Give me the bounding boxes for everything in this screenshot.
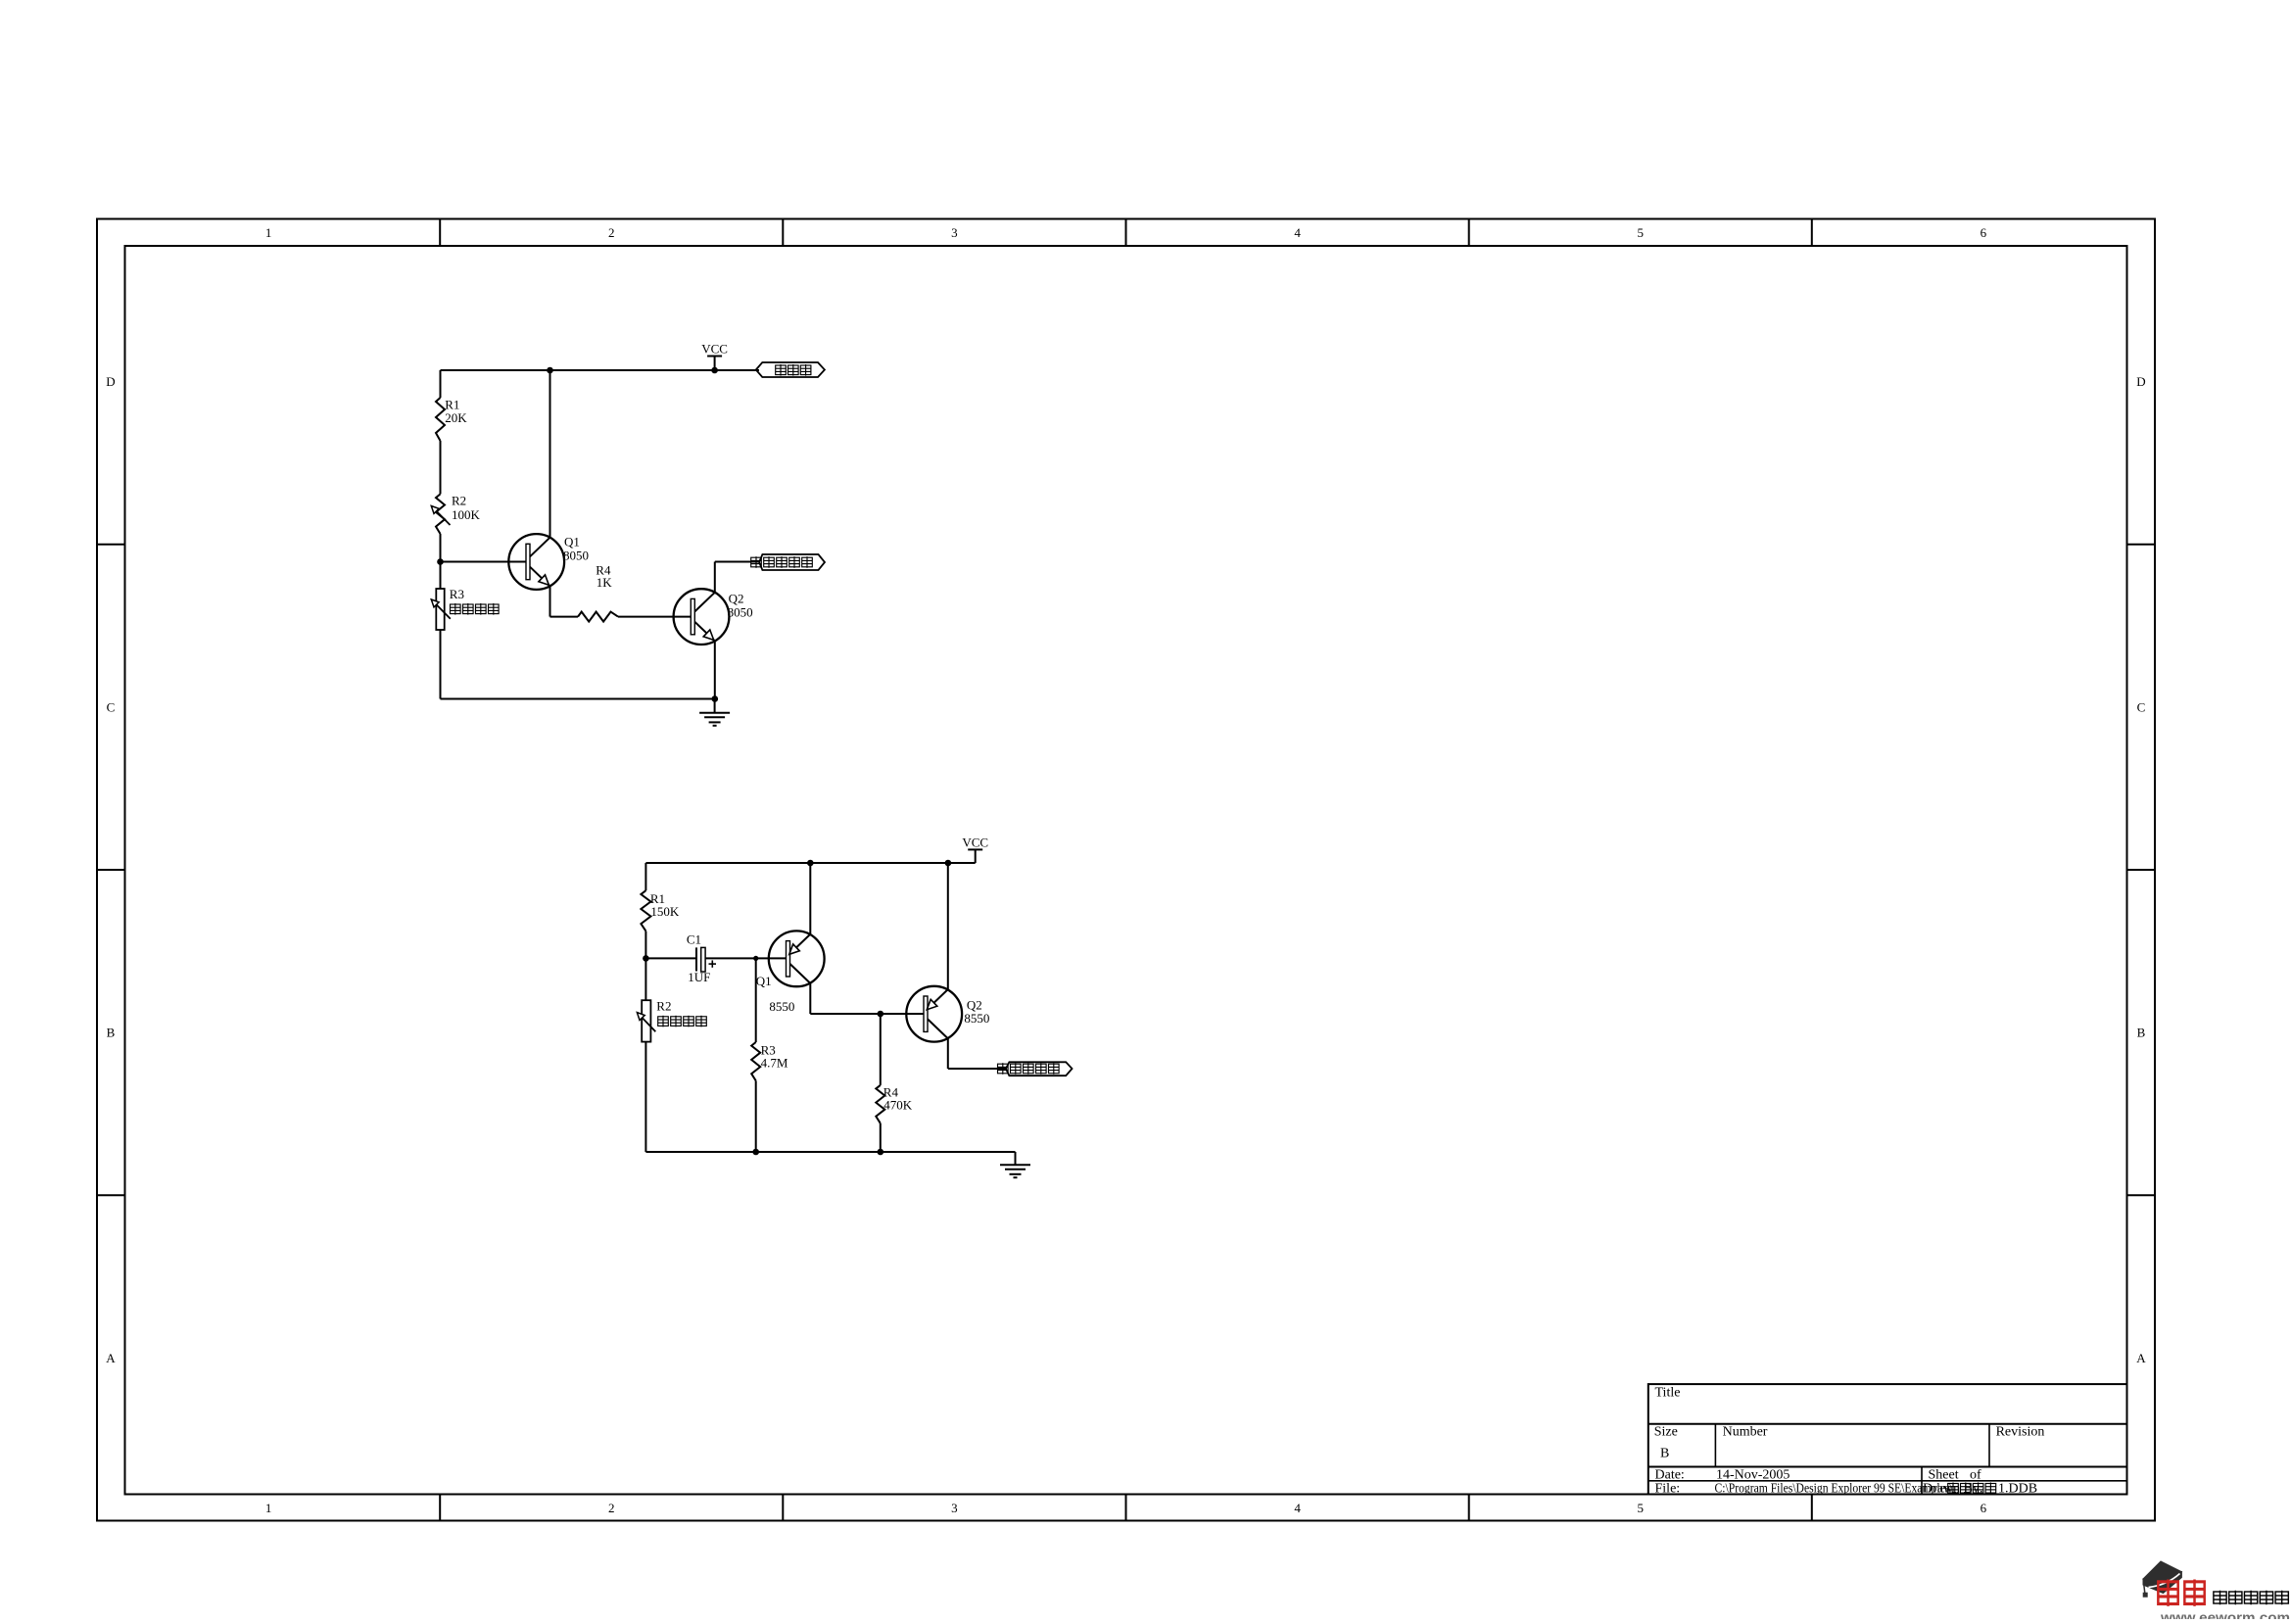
svg-text:6: 6	[1981, 1501, 1987, 1515]
svg-text:3: 3	[951, 225, 958, 240]
svg-text:1.DDB: 1.DDB	[1998, 1481, 2037, 1496]
svg-text:B: B	[1660, 1447, 1669, 1461]
svg-text:C1: C1	[687, 932, 701, 947]
svg-text:www.eeworm.com: www.eeworm.com	[2160, 1609, 2290, 1619]
svg-text:VCC: VCC	[962, 835, 988, 849]
svg-text:C: C	[107, 699, 116, 714]
svg-text:VCC: VCC	[701, 342, 728, 357]
svg-text:4: 4	[1294, 1501, 1301, 1515]
svg-text:R2: R2	[656, 998, 671, 1013]
svg-text:1: 1	[265, 225, 272, 240]
svg-text:5: 5	[1638, 225, 1645, 240]
svg-text:470K: 470K	[883, 1097, 913, 1112]
svg-text:1K: 1K	[597, 575, 613, 590]
svg-text:3: 3	[951, 1501, 958, 1515]
svg-text:150K: 150K	[650, 904, 680, 919]
svg-text:2: 2	[608, 225, 615, 240]
svg-text:R3: R3	[450, 587, 464, 601]
svg-text:R2: R2	[452, 494, 466, 508]
svg-text:100K: 100K	[452, 507, 481, 522]
svg-text:B: B	[107, 1026, 116, 1040]
svg-text:1: 1	[265, 1501, 272, 1515]
svg-text:1UF: 1UF	[688, 970, 710, 984]
svg-text:8050: 8050	[563, 549, 589, 563]
svg-text:Revision: Revision	[1996, 1425, 2045, 1440]
svg-text:File:: File:	[1655, 1481, 1681, 1496]
svg-text:20K: 20K	[445, 410, 467, 425]
svg-text:A: A	[2136, 1351, 2146, 1365]
svg-text:6: 6	[1981, 225, 1987, 240]
svg-text:4.7M: 4.7M	[761, 1055, 788, 1070]
svg-text:D: D	[106, 374, 115, 389]
svg-text:4: 4	[1294, 225, 1301, 240]
svg-text:8550: 8550	[769, 999, 794, 1014]
svg-text:Q1: Q1	[564, 534, 580, 549]
svg-text:Date:: Date:	[1655, 1467, 1685, 1482]
svg-text:Size: Size	[1654, 1425, 1678, 1440]
svg-text:8050: 8050	[728, 604, 753, 619]
svg-text:C:\Program Files\Design Explor: C:\Program Files\Design Explorer 99 SE\E…	[1715, 1481, 1953, 1496]
svg-text:14-Nov-2005: 14-Nov-2005	[1716, 1467, 1790, 1482]
svg-text:C: C	[2137, 699, 2146, 714]
svg-text:5: 5	[1638, 1501, 1645, 1515]
svg-text:2: 2	[608, 1501, 615, 1515]
svg-text:8550: 8550	[964, 1011, 989, 1026]
svg-text:Number: Number	[1723, 1425, 1768, 1440]
svg-text:Title: Title	[1655, 1385, 1681, 1400]
svg-text:B: B	[2137, 1026, 2146, 1040]
svg-text:A: A	[106, 1351, 116, 1365]
svg-text:Sheet: Sheet	[1929, 1467, 1959, 1482]
svg-text:D: D	[2136, 374, 2145, 389]
svg-text:R1: R1	[445, 397, 459, 411]
svg-text:Q1: Q1	[756, 974, 772, 988]
svg-text:of: of	[1970, 1467, 1981, 1482]
